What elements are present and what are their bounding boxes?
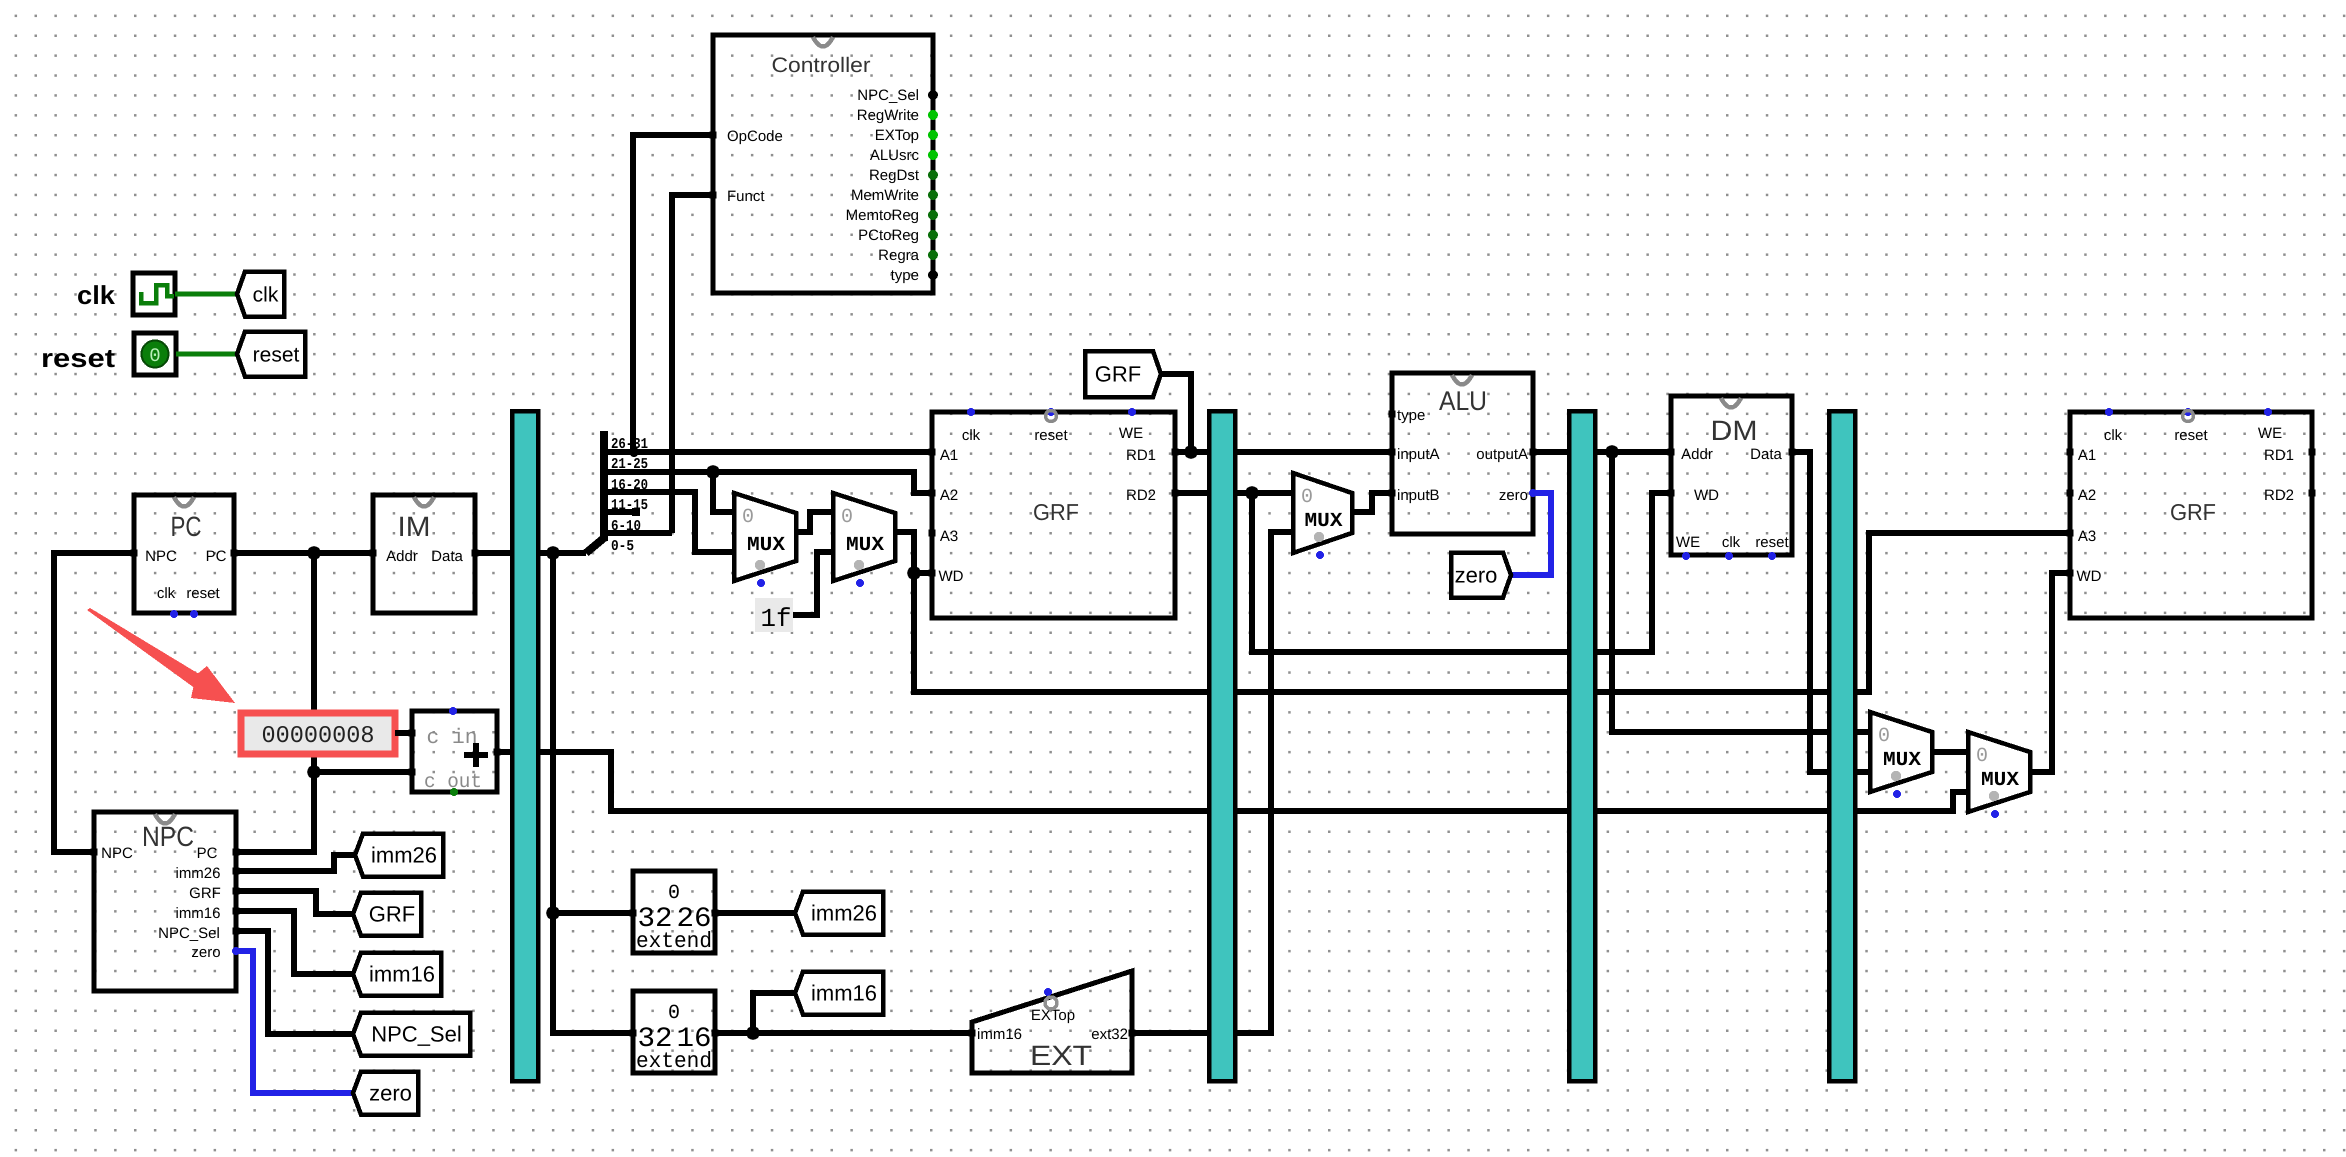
junction RD1 node — [1184, 445, 1198, 459]
wire PC value down to adder and NPC — [236, 553, 314, 852]
wire adder inputB — [314, 769, 412, 775]
wire to GRF1 WD — [914, 570, 931, 576]
extend16 pin out — [712, 1030, 719, 1037]
GRF2 pin RD2 — [2309, 490, 2316, 497]
adder pin b — [409, 769, 416, 776]
pipeline register bar 1 — [512, 411, 538, 1081]
zero-extend 32-16 — [633, 991, 715, 1074]
svg-text:zero: zero — [191, 944, 220, 961]
svg-text:GRF: GRF — [1095, 362, 1141, 387]
svg-text:clk: clk — [962, 427, 981, 444]
svg-text:c in: c in — [427, 727, 478, 750]
svg-text:Funct: Funct — [727, 188, 765, 205]
tunnel zero (NPC) — [353, 1072, 418, 1115]
wire NPC imm26 — [236, 855, 355, 871]
adder pin cout dot — [450, 788, 458, 796]
pipeline register bar 4 — [1829, 411, 1855, 1081]
EXT pin EXTop dot — [1044, 988, 1052, 996]
IM clock chevron — [414, 497, 434, 507]
svg-text:WE: WE — [2258, 425, 2282, 442]
tunnel zero (ALU) — [1451, 553, 1511, 598]
extend26 pin out — [712, 910, 719, 917]
svg-text:WD: WD — [2077, 568, 2102, 585]
DM pin reset dot — [1768, 552, 1776, 560]
svg-text:0: 0 — [1301, 486, 1313, 509]
wire RD2 down to DM WD — [1252, 493, 1671, 652]
wire MUX3 out to ALU inputB — [1352, 493, 1392, 512]
register PC — [134, 495, 234, 613]
svg-text:GRF: GRF — [369, 902, 415, 927]
svg-text:imm16: imm16 — [369, 962, 435, 987]
multiplexer MUX6 (PCtoReg) — [1968, 732, 2030, 818]
tunnel GRF (NPC) — [353, 893, 421, 936]
svg-text:A1: A1 — [940, 447, 958, 464]
wire NPC NPC_Sel — [236, 931, 353, 1034]
wire NPC imm16 — [236, 911, 353, 974]
pipeline register bar 2 — [1209, 411, 1235, 1081]
svg-text:A3: A3 — [940, 528, 958, 545]
GRF2 left pin y493 — [2067, 490, 2074, 497]
GRF2 left pin y573 — [2067, 570, 2074, 577]
wire ALU zero to tunnel — [1511, 493, 1551, 575]
GRF2 pin clk dot — [2105, 408, 2113, 416]
controller pin RegWrite — [857, 107, 938, 124]
svg-text:zero: zero — [369, 1081, 412, 1106]
svg-text:0: 0 — [668, 1002, 680, 1025]
svg-text:A2: A2 — [2078, 487, 2096, 504]
wire ALU outputA to DM Addr — [1533, 449, 1671, 455]
junction ALU result node — [1605, 445, 1619, 459]
controller pin MemWrite — [851, 187, 938, 204]
svg-text:inputB: inputB — [1397, 487, 1440, 504]
svg-text:extend: extend — [636, 1049, 712, 1074]
svg-text:0: 0 — [149, 345, 160, 367]
svg-text:PCtoReg: PCtoReg — [858, 227, 919, 244]
data memory DM — [1671, 396, 1792, 555]
svg-text:6-10: 6-10 — [611, 518, 641, 535]
splitter stub 26-31 — [602, 449, 634, 455]
svg-text:RD1: RD1 — [2264, 447, 2294, 464]
svg-text:MUX: MUX — [1883, 749, 1921, 772]
svg-text:inputA: inputA — [1397, 446, 1440, 463]
splitter label 0-5 — [611, 538, 634, 555]
GRF2 left pin y452 — [2067, 449, 2074, 456]
controller unit — [713, 35, 933, 293]
svg-text:A2: A2 — [940, 487, 958, 504]
register file GRF (writeback) — [2070, 412, 2312, 618]
DM clock chevron — [1721, 398, 1741, 408]
splitter stub 6-10 — [602, 530, 672, 536]
svg-text:1f: 1f — [761, 604, 792, 634]
svg-text:imm26: imm26 — [175, 865, 220, 882]
PC pin clk dot — [170, 610, 178, 618]
wire clk to tunnel — [175, 292, 237, 297]
svg-text:MUX: MUX — [747, 534, 785, 557]
ALU pin type — [1389, 411, 1396, 418]
wire ALU result to MUX5 upper — [1612, 452, 1870, 732]
GRF1 left pin y452 — [929, 449, 936, 456]
wire extend26 to imm26 tunnel — [715, 910, 795, 916]
junction extend26 tap — [546, 906, 560, 920]
svg-text:Data: Data — [1750, 446, 1782, 463]
svg-text:0: 0 — [742, 506, 754, 529]
svg-text:type: type — [1397, 407, 1425, 424]
svg-text:RD2: RD2 — [1126, 487, 1156, 504]
svg-text:11-15: 11-15 — [611, 497, 648, 514]
svg-text:IM: IM — [398, 511, 431, 542]
arithmetic unit ALU — [1392, 373, 1533, 534]
svg-text:WD: WD — [1694, 487, 1719, 504]
wire MUX6 out to GRF2 WD — [2030, 573, 2070, 772]
wire MUX1 out to MUX2 — [795, 512, 833, 532]
controller pin OpCode — [710, 132, 717, 139]
extend16 pin in — [630, 1030, 637, 1037]
wire MUX2 out / writeback address — [895, 532, 2070, 692]
svg-text:ext32: ext32 — [1091, 1026, 1128, 1043]
DM pin Data — [1789, 449, 1796, 456]
register file GRF (decode) — [932, 412, 1175, 618]
wire PC feedback left vertical — [54, 553, 134, 852]
svg-text:Regra: Regra — [878, 247, 920, 264]
controller pin EXTop — [875, 127, 938, 144]
svg-text:A1: A1 — [2078, 447, 2096, 464]
svg-text:EXT: EXT — [1030, 1040, 1092, 1071]
svg-text:RD2: RD2 — [2264, 487, 2294, 504]
constant 00000008 — [241, 713, 395, 754]
wire rs field 26-31 to GRF A1 — [634, 449, 931, 455]
GRF1 pin WE dot — [1128, 408, 1136, 416]
svg-text:clk: clk — [1722, 534, 1741, 551]
zero-extend 32-26 — [633, 871, 715, 954]
svg-text:GRF: GRF — [2170, 499, 2216, 525]
ALU pin inputB — [1389, 490, 1396, 497]
NPC pin zero dot — [232, 947, 240, 955]
svg-text:type: type — [891, 267, 919, 284]
svg-text:reset: reset — [253, 343, 300, 366]
svg-text:imm26: imm26 — [811, 901, 877, 926]
GRF1 pin clk dot — [967, 408, 975, 416]
svg-text:Addr: Addr — [1681, 446, 1713, 463]
NPC pin y871 — [233, 868, 240, 875]
reset input pin — [134, 333, 176, 375]
controller pin Funct — [710, 192, 717, 199]
svg-text:reset: reset — [186, 585, 220, 602]
splitter label 6-10 — [611, 518, 641, 535]
adder pin cin dot — [449, 707, 457, 715]
NPC pin y852 — [233, 849, 240, 856]
wire PC out to IM Addr — [234, 550, 373, 556]
junction imm16 tap — [746, 1026, 760, 1040]
DM pin WE dot — [1682, 552, 1690, 560]
adder pin out — [494, 749, 501, 756]
svg-text:clk: clk — [157, 585, 176, 602]
svg-text:0-5: 0-5 — [611, 538, 634, 555]
GRF1 pin reset dot — [1047, 408, 1055, 416]
adder PC+8 — [412, 711, 497, 794]
label reset input — [41, 343, 115, 373]
wire NPC zero tunnel — [236, 951, 353, 1093]
GRF1 pin RD1 — [1172, 449, 1179, 456]
PC pin out — [231, 550, 238, 557]
tunnel clk — [237, 272, 284, 317]
GRF1 left pin y533 — [929, 530, 936, 537]
svg-text:reset: reset — [1755, 534, 1789, 551]
GRF1 pin RD2 — [1172, 490, 1179, 497]
controller pin PCtoReg — [858, 227, 938, 244]
GRF1 left pin y573 — [929, 570, 936, 577]
GRF1 left pin y493 — [929, 490, 936, 497]
clk input pin — [133, 273, 175, 315]
controller pin type — [891, 267, 938, 284]
PC pin reset dot — [190, 610, 198, 618]
svg-text:GRF: GRF — [1033, 499, 1079, 525]
svg-text:imm16: imm16 — [175, 905, 220, 922]
splitter label 26-31 — [611, 436, 648, 453]
multiplexer MUX1 (RegDst) — [734, 493, 796, 587]
ALU clock chevron — [1452, 375, 1472, 385]
svg-text:extend: extend — [636, 929, 712, 954]
wire instruction down to extenders — [553, 553, 633, 1033]
svg-text:PC: PC — [171, 511, 202, 542]
wire EXT out to MUX3 lower — [1132, 532, 1293, 1033]
junction RD2 node — [1245, 486, 1259, 500]
junction adder inputB tap — [307, 765, 321, 779]
controller pin ALUsrc — [870, 147, 938, 164]
svg-text:RD1: RD1 — [1126, 447, 1156, 464]
svg-text:RegWrite: RegWrite — [857, 107, 919, 124]
svg-text:ALUsrc: ALUsrc — [870, 147, 920, 164]
sign extender EXT — [972, 971, 1132, 1073]
junction opcode/A1 node — [629, 447, 639, 457]
splitter stub 16-20 — [602, 489, 634, 495]
svg-text:MUX: MUX — [1981, 769, 2019, 792]
svg-text:NPC: NPC — [142, 821, 194, 852]
wire reset to tunnel — [176, 352, 237, 357]
junction 21-25 mux tap — [706, 465, 720, 479]
wire imm16 tunnel drop — [753, 993, 795, 1033]
junction instruction node — [546, 546, 560, 560]
NPC pin y931 — [233, 928, 240, 935]
multiplexer MUX5 (MemtoReg) — [1870, 712, 1932, 798]
svg-text:DM: DM — [1711, 415, 1758, 446]
svg-text:reset: reset — [41, 343, 115, 373]
PC pin NPC — [131, 550, 138, 557]
svg-text:PC: PC — [206, 548, 227, 565]
NPC pin in — [91, 849, 98, 856]
wire MUX5 out to MUX6 — [1932, 749, 1968, 755]
svg-text:clk: clk — [2104, 427, 2123, 444]
svg-text:zero: zero — [1455, 563, 1498, 588]
tunnel GRF (WE source) — [1085, 351, 1161, 397]
wire RD2 to MUX3 — [1173, 490, 1293, 496]
svg-text:OpCode: OpCode — [727, 128, 783, 145]
wire adder out PC+8 — [497, 752, 1968, 811]
svg-text:WD: WD — [939, 568, 964, 585]
svg-text:Data: Data — [431, 548, 463, 565]
GRF2 reset ring — [2183, 411, 2194, 422]
EXT pin imm16 — [969, 1030, 976, 1037]
wire extend16 out to EXT — [715, 1030, 972, 1036]
svg-text:A3: A3 — [2078, 528, 2096, 545]
wire Funct bus — [672, 195, 713, 533]
ALU pin zero dot — [1529, 489, 1537, 497]
svg-text:NPC: NPC — [145, 548, 177, 565]
svg-text:NPC_Sel: NPC_Sel — [158, 925, 220, 942]
svg-text:WE: WE — [1119, 425, 1143, 442]
splitter stub 21-25 — [602, 469, 634, 475]
svg-text:00000008: 00000008 — [262, 723, 375, 750]
tunnel NPC_Sel — [353, 1013, 470, 1056]
GRF2 left pin y533 — [2067, 530, 2074, 537]
tunnel reset — [237, 332, 305, 377]
svg-text:MemWrite: MemWrite — [851, 187, 919, 204]
svg-text:0: 0 — [668, 882, 680, 905]
wire 16-20 to MUX1 lower — [634, 492, 734, 552]
NPC clock chevron — [155, 814, 175, 824]
controller pin RegDst — [869, 167, 938, 184]
controller clock chevron — [813, 37, 833, 47]
controller pin MemtoReg — [846, 207, 938, 224]
svg-text:EXTop: EXTop — [875, 127, 919, 144]
svg-text:MUX: MUX — [1305, 510, 1343, 533]
tunnel imm16 (fields) — [795, 972, 883, 1015]
junction GRF1 WD tap — [907, 566, 921, 580]
svg-text:0: 0 — [841, 506, 853, 529]
PC clock chevron — [174, 497, 194, 507]
tunnel imm26 (fields) — [795, 892, 883, 935]
IM pin Data — [472, 550, 479, 557]
EXT pin ext32 — [1129, 1030, 1136, 1037]
multiplexer MUX3 (ALUsrc) — [1293, 473, 1352, 559]
svg-text:NPC_Sel: NPC_Sel — [857, 87, 919, 104]
NPC pin y891 — [233, 888, 240, 895]
wire OpCode bus — [633, 135, 713, 452]
svg-text:WE: WE — [1676, 534, 1700, 551]
label clk input — [77, 280, 116, 310]
controller pin Regra — [878, 247, 938, 264]
svg-text:reset: reset — [2174, 427, 2208, 444]
splitter label 21-25 — [611, 456, 648, 473]
ALU pin inputA — [1389, 449, 1396, 456]
svg-text:clk: clk — [77, 280, 116, 310]
GRF2 pin RD1 — [2309, 449, 2316, 456]
IM pin Addr — [370, 550, 377, 557]
splitter instr fields — [586, 431, 604, 553]
tunnel imm26 (NPC) — [355, 834, 443, 877]
wire GRF tunnel drop — [1161, 374, 1191, 452]
svg-text:NPC: NPC — [101, 845, 133, 862]
splitter label 11-15 — [611, 497, 648, 514]
svg-text:MUX: MUX — [846, 534, 884, 557]
svg-text:Controller: Controller — [772, 54, 871, 77]
wire to 32-26 extend input — [553, 910, 633, 916]
wire NPC GRF — [236, 891, 353, 914]
wire 21-25 to GRF A2 — [634, 472, 931, 493]
wire RD1 to ALU inputA — [1173, 449, 1392, 455]
svg-text:imm16: imm16 — [811, 981, 877, 1006]
junction PC/IM node — [307, 546, 321, 560]
DM pin Addr — [1668, 449, 1675, 456]
splitter stub 11-15 — [602, 509, 635, 515]
splitter label 16-20 — [611, 477, 648, 494]
annotation red arrow — [87, 608, 235, 703]
wire DM Data to MUX5 lower — [1792, 452, 1870, 772]
EXT chevron — [1045, 997, 1057, 1009]
svg-text:clk: clk — [253, 283, 279, 306]
tunnel imm16 (NPC) — [353, 953, 441, 996]
svg-text:MemtoReg: MemtoReg — [846, 207, 919, 224]
svg-text:NPC_Sel: NPC_Sel — [371, 1022, 461, 1047]
ALU pin outputA — [1530, 449, 1537, 456]
svg-text:Addr: Addr — [386, 548, 418, 565]
svg-text:GRF: GRF — [189, 885, 221, 902]
NPC pin y911 — [233, 908, 240, 915]
GRF2 pin reset dot — [2184, 408, 2192, 416]
wire IM Data to splitter — [475, 550, 586, 556]
svg-text:zero: zero — [1499, 487, 1528, 504]
wire const8 to adder — [395, 730, 412, 736]
adder pin a — [409, 730, 416, 737]
DM pin WD — [1668, 490, 1675, 497]
DM pin clk dot — [1725, 552, 1733, 560]
svg-text:imm26: imm26 — [371, 843, 437, 868]
wire const 1f to MUX2 lower — [793, 552, 833, 615]
pipeline register bar 3 — [1569, 411, 1595, 1081]
wire 21-25 down to MUX1 — [713, 472, 734, 512]
svg-text:0: 0 — [1878, 725, 1890, 748]
controller pin NPC_Sel — [857, 87, 938, 104]
extend26 pin in — [630, 910, 637, 917]
svg-text:outputA: outputA — [1476, 446, 1528, 463]
svg-text:reset: reset — [1034, 427, 1068, 444]
splitter stub 11-15 end — [632, 508, 640, 516]
constant 1f — [755, 598, 793, 634]
instruction memory IM — [373, 495, 475, 613]
svg-text:imm16: imm16 — [977, 1026, 1022, 1043]
svg-text:0: 0 — [1976, 745, 1988, 768]
multiplexer MUX2 (Regra/1f) — [833, 493, 895, 587]
svg-text:PC: PC — [197, 845, 218, 862]
svg-text:ALU: ALU — [1439, 386, 1487, 416]
svg-text:RegDst: RegDst — [869, 167, 920, 184]
next-PC unit NPC — [94, 812, 236, 991]
GRF1 reset ring — [1046, 411, 1057, 422]
GRF2 pin WE dot — [2264, 408, 2272, 416]
